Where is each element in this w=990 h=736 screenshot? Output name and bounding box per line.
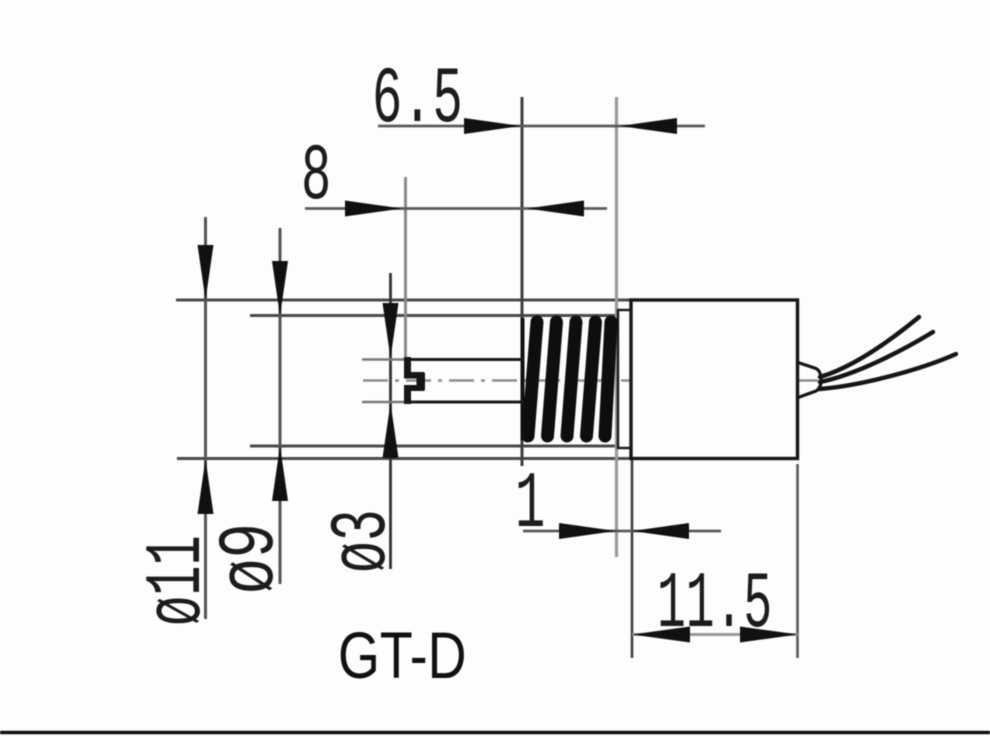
shaft end notch [404,357,425,404]
dimension 1 arrow right [559,523,616,539]
svg-text:ø3: ø3 [318,509,409,573]
shaft top ext grey [362,358,406,361]
svg-text:GT-D: GT-D [338,619,466,692]
svg-text:1: 1 [515,460,545,551]
dimension 1 arrow left [632,523,689,539]
motor body rectangle [631,300,798,459]
extension line thread-start vertical x522 [521,97,524,466]
shaft top line [406,358,524,361]
extension line thread-bottom (o9 bottom) [250,445,618,448]
svg-text:8: 8 [301,132,331,223]
dimension 6.5 arrow right [464,118,521,134]
wire 2 middle [820,332,933,382]
thread coil [528,322,611,436]
wire 3 bottom [819,354,956,389]
svg-text:6.5: 6.5 [372,55,463,146]
dimension o3 arrow down [383,303,399,358]
wire exit nub [798,363,821,398]
dimension o11 arrow up [198,459,214,514]
wire 1 top [820,317,919,377]
dimension 11.5 arrow right [740,627,798,643]
dimension 6.5 arrow left [620,118,677,134]
extension line thread-end vertical x616 [615,97,618,557]
extension line body-bottom (o11 bottom) [177,457,632,460]
centerline dash-dot [363,379,820,382]
dimension 11.5 line [632,633,798,636]
dimension 1 line [523,530,721,533]
dimension 8 line [305,207,607,210]
dimension 8 arrow left [527,201,584,217]
dimension 11.5 arrow left [632,627,690,643]
thread left boundary [521,318,525,440]
shaft bottom line [406,401,524,404]
collar between thread and body [618,310,631,448]
dimension o11 line vertical [204,217,207,619]
bottom border line [0,731,990,734]
extension line body-face vertical x632 [631,452,634,658]
extension line thread-top (o9 top) [250,314,618,317]
dimension o3 arrow up [383,403,399,458]
dimension 8 arrow right [345,201,402,217]
dimension o11 arrow down [198,245,214,300]
svg-text:11.5: 11.5 [657,559,772,650]
dimension 6.5 line [378,125,705,128]
extension line body-rear vertical x798 [796,464,799,658]
dimension o3 line vertical [389,273,392,569]
extension line shaft-end vertical [404,177,407,358]
dimension o9 arrow up [272,446,288,501]
svg-text:ø9: ø9 [206,523,297,594]
dimension o9 arrow down [272,261,288,316]
dimension o9 line vertical [279,228,282,584]
extension line body-top (o11 top) [176,299,631,302]
shaft bottom ext grey [362,401,406,404]
